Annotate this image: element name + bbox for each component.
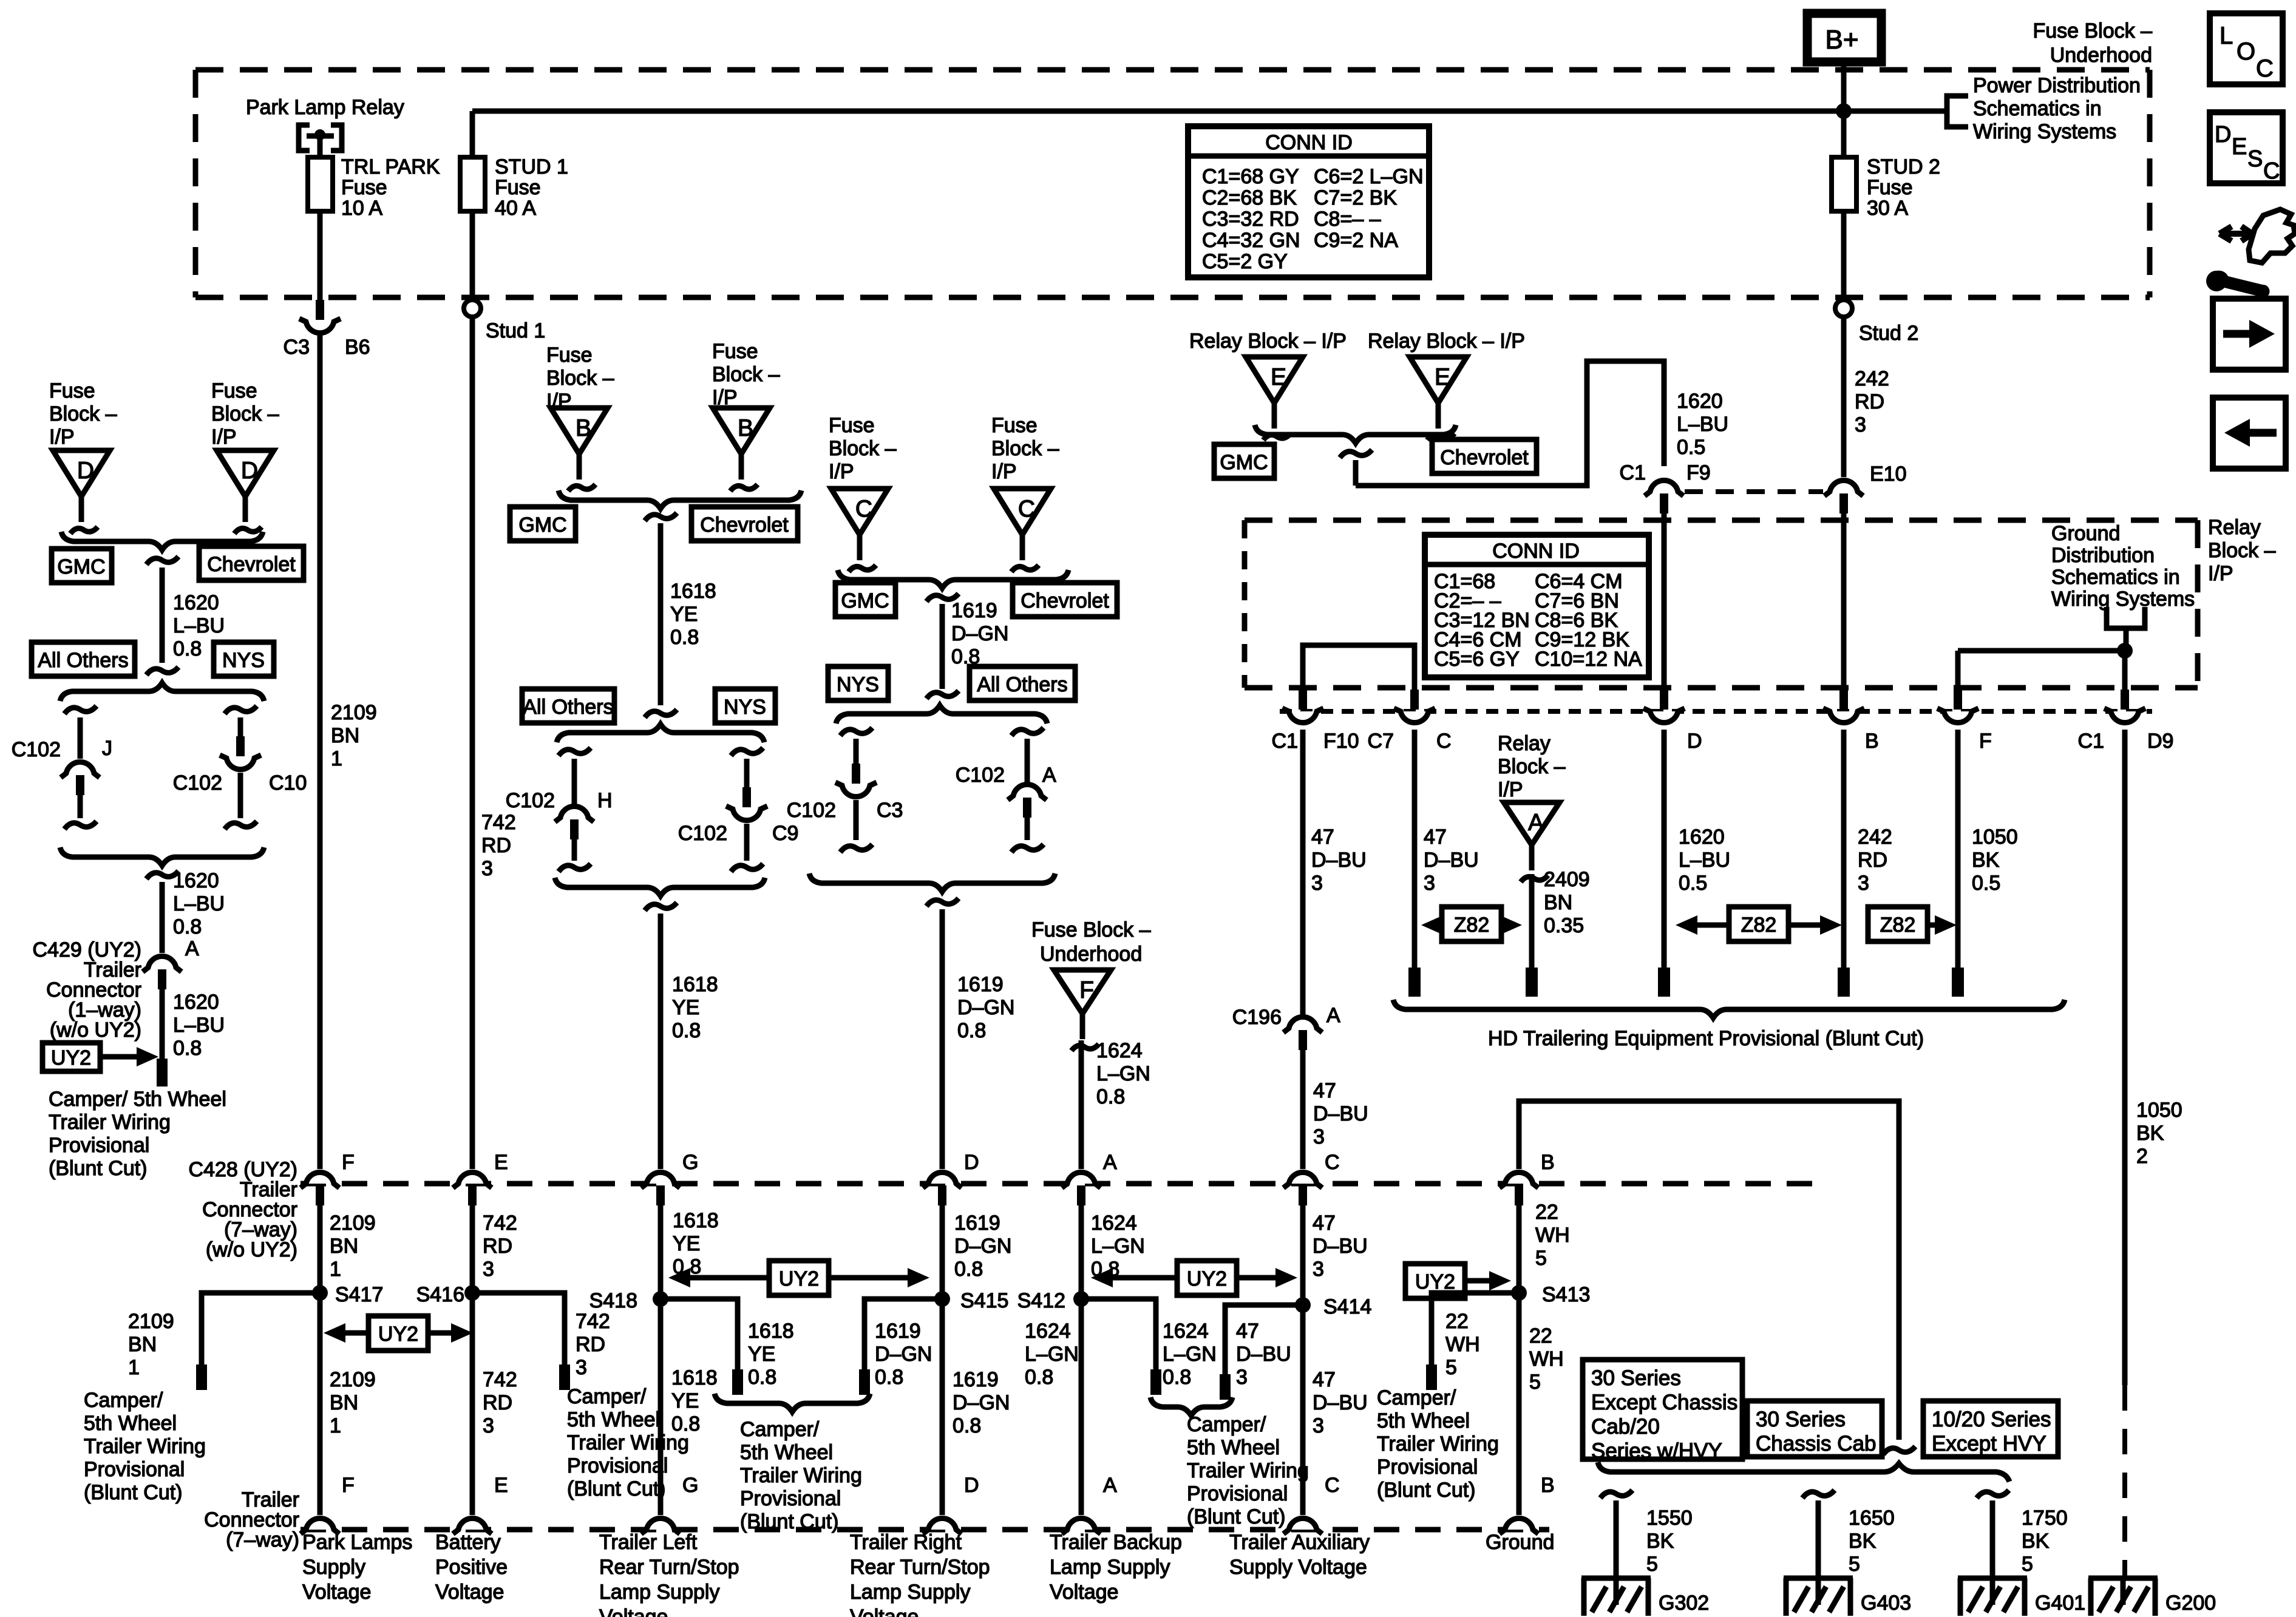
svg-text:0.8: 0.8 [173,637,202,660]
connector C3 B6 park lamp feed [306,322,334,333]
svg-text:1624: 1624 [1096,1039,1143,1062]
svg-text:1620: 1620 [173,591,219,614]
connector D fuse block IP GMC side [53,450,110,497]
svg-text:2: 2 [2136,1145,2148,1168]
svg-text:C: C [2256,55,2274,82]
svg-text:A: A [1103,1474,1117,1497]
svg-text:Chevrolet: Chevrolet [1440,446,1529,469]
junction S412 [1073,1291,1089,1307]
wire 1620 to C429 [160,882,165,953]
wire E selection route to C1 F9 [1353,460,1359,486]
svg-text:D9: D9 [2147,730,2173,753]
svg-text:10/20 Series: 10/20 Series [1932,1408,2051,1431]
junction S416 [464,1285,480,1301]
connector trailer 7-way cavity A [1067,1518,1095,1530]
svg-text:Fuse: Fuse [341,176,387,199]
svg-text:S415: S415 [960,1289,1008,1312]
svg-text:22: 22 [1445,1310,1469,1333]
svg-text:Provisional: Provisional [49,1134,149,1157]
fuse STUD 1 40A [460,157,485,211]
svg-text:NYS: NYS [837,673,879,696]
svg-text:Fuse: Fuse [712,340,758,363]
B+ power feed box [1807,13,1881,62]
hook below gather [146,871,178,879]
svg-text:3: 3 [1313,1125,1325,1148]
svg-text:S414: S414 [1323,1295,1371,1318]
svg-text:Block –: Block – [211,402,279,425]
connector C428 cavity C [1289,1172,1317,1184]
svg-text:0.8: 0.8 [672,1019,701,1042]
svg-text:C1=68 GY: C1=68 GY [1202,165,1299,188]
option box Chevrolet [199,546,304,580]
svg-text:UY2: UY2 [378,1323,418,1346]
svg-text:C6=2 L–GN: C6=2 L–GN [1314,165,1424,188]
hook above D-section spreading brace [146,667,178,675]
svg-text:B6: B6 [345,336,370,359]
svg-text:0.8: 0.8 [1163,1366,1191,1389]
wire G left option upper [572,759,577,804]
svg-text:Fuse Block –: Fuse Block – [1031,918,1151,941]
svg-text:C5=6 GY: C5=6 GY [1434,648,1520,671]
svg-text:242: 242 [1855,367,1889,390]
brace gathering G options [555,878,765,896]
hook above G spreading brace [645,710,677,717]
svg-text:C7=2 BK: C7=2 BK [1314,186,1397,209]
wire C7 to blunt cut [1412,730,1418,969]
svg-text:Trailer Wiring: Trailer Wiring [567,1431,689,1454]
svg-text:Z82: Z82 [1454,914,1490,937]
Z82 option double arrow C7 [1442,907,1501,941]
hook D left bottom [840,844,872,852]
svg-text:1620: 1620 [173,991,219,1014]
connector C196 A [1289,1017,1317,1028]
hook ground G302 [1600,1490,1632,1498]
svg-text:UY2: UY2 [51,1046,91,1070]
connector D fuse block IP Chevrolet side [217,450,274,497]
ground G401 [1958,1576,2027,1581]
svg-text:C102: C102 [678,822,727,845]
svg-text:3: 3 [483,1414,494,1437]
svg-text:3: 3 [576,1356,587,1379]
wire stud2 to E10 [1841,317,1847,477]
svg-text:0.5: 0.5 [1677,436,1705,459]
svg-text:D–BU: D–BU [1311,849,1367,872]
hook ground G401 [1977,1490,2009,1498]
svg-text:Fuse: Fuse [829,414,875,437]
UY2 option arrows G D [769,1261,829,1295]
svg-text:10 A: 10 A [341,197,382,220]
svg-text:Battery: Battery [435,1531,501,1554]
svg-text:BK: BK [1849,1530,1877,1553]
wire D right option lower [1025,818,1030,840]
spreading brace G options [557,724,764,742]
svg-text:UY2: UY2 [779,1267,819,1290]
svg-text:B+: B+ [1825,25,1858,55]
svg-text:3: 3 [1313,1258,1324,1281]
svg-text:Voltage: Voltage [599,1605,668,1617]
svg-text:0.8: 0.8 [173,1037,202,1060]
svg-text:C1: C1 [2078,730,2104,753]
svg-text:C2=68 BK: C2=68 BK [1202,186,1297,209]
svg-text:Park Lamp Relay: Park Lamp Relay [246,96,404,119]
svg-text:Cab/20: Cab/20 [1591,1415,1660,1439]
svg-text:C10: C10 [269,771,307,795]
svg-text:D–BU: D–BU [1236,1343,1291,1366]
svg-text:47: 47 [1311,825,1334,849]
svg-text:RD: RD [483,1235,512,1258]
connector C1 F10 [1289,711,1317,723]
svg-text:Trailer Right: Trailer Right [850,1531,962,1554]
connector E10 [1830,480,1858,492]
LOC icon box [2210,13,2283,84]
hook below C brace [926,594,959,602]
svg-text:1618: 1618 [673,1209,719,1232]
svg-text:Trailer Wiring: Trailer Wiring [1187,1459,1309,1482]
svg-text:Relay: Relay [1498,732,1550,755]
option box NYS [214,642,274,676]
brace joining C connectors [838,570,1068,588]
svg-text:TRL PARK: TRL PARK [341,155,440,178]
svg-text:L–BU: L–BU [1679,849,1730,872]
ground distribution bracket [2107,607,2145,628]
svg-text:Except Chassis: Except Chassis [1591,1391,1737,1414]
svg-text:D: D [964,1151,979,1174]
wire F column fuse block to trailer connector [318,335,323,1169]
svg-text:30 Series: 30 Series [1591,1366,1681,1390]
svg-text:Voltage: Voltage [302,1581,371,1604]
svg-text:Z82: Z82 [1741,914,1777,937]
svg-text:G401: G401 [2035,1592,2085,1615]
svg-text:RD: RD [483,1391,512,1414]
svg-text:Lamp Supply: Lamp Supply [1050,1556,1170,1579]
svg-text:Underhood: Underhood [2050,44,2152,67]
svg-text:G: G [682,1151,698,1174]
wire A martini to blunt cut [1529,874,1535,969]
connector B fuse block IP GMC side [551,408,608,454]
wire G right option upper [744,759,750,787]
svg-text:I/P: I/P [829,460,854,483]
svg-text:(Blunt Cut): (Blunt Cut) [1377,1479,1476,1502]
svg-text:(w/o UY2): (w/o UY2) [206,1238,297,1261]
svg-text:All Others: All Others [977,673,1067,696]
wire left option lower [78,795,83,818]
svg-text:G: G [682,1474,698,1497]
relay block internal loop F10 C7 [1303,645,1415,692]
branch S416 to camper blunt cut [472,1293,565,1366]
hook below D gather [926,898,959,906]
svg-text:WH: WH [1445,1333,1480,1356]
connector C102 H [560,806,588,818]
hook D right bottom [1011,844,1044,852]
svg-text:2109: 2109 [128,1310,174,1333]
svg-text:A: A [185,937,199,960]
wire E10 into relay block to B terminal [1841,514,1847,692]
svg-text:1620: 1620 [173,869,219,892]
hook below E brace [1340,450,1372,458]
connector C428 cavity F [306,1172,334,1184]
svg-text:Lamp Supply: Lamp Supply [599,1581,719,1604]
svg-text:Fuse: Fuse [49,379,95,402]
svg-text:0.8: 0.8 [748,1366,776,1389]
branch S414 to camper blunt cut [1225,1305,1303,1375]
svg-text:D–GN: D–GN [951,622,1008,645]
svg-text:Fuse: Fuse [1867,176,1913,199]
wire stud1 fuse riser [470,111,475,157]
connector B relay [1830,711,1858,723]
svg-text:S412: S412 [1017,1289,1065,1312]
option box All Others D column [970,666,1075,700]
connector trailer 7-way cavity B [1505,1518,1533,1530]
svg-text:(Blunt Cut): (Blunt Cut) [567,1477,666,1500]
svg-text:Chassis Cab: Chassis Cab [1756,1432,1876,1456]
connector trailer 7-way cavity E [458,1518,486,1530]
svg-text:1624: 1624 [1091,1212,1137,1235]
svg-text:I/P: I/P [991,460,1017,483]
hook right option [225,706,257,714]
blunt cut pins HD trailering [1408,968,1421,997]
svg-text:Trailer Wiring: Trailer Wiring [84,1435,206,1458]
svg-text:0.8: 0.8 [671,1412,700,1436]
svg-text:D–BU: D–BU [1313,1102,1368,1125]
hook left option bottom [64,821,97,829]
svg-text:YE: YE [670,603,698,626]
svg-text:Stud 2: Stud 2 [1859,322,1918,345]
svg-text:Fuse: Fuse [495,176,541,199]
spreading brace D options [836,705,1047,724]
svg-text:A: A [1528,810,1544,836]
connector trailer 7-way cavity G [647,1518,674,1530]
svg-text:G200: G200 [2165,1592,2216,1615]
svg-text:Positive: Positive [435,1556,508,1579]
svg-text:RD: RD [1855,390,1884,413]
svg-text:1650: 1650 [1849,1507,1895,1530]
svg-text:Camper/ 5th Wheel: Camper/ 5th Wheel [49,1088,226,1111]
svg-text:S413: S413 [1542,1283,1590,1306]
connector C7 C [1401,711,1428,723]
option box All Others G [522,689,614,723]
svg-text:B: B [1541,1151,1555,1174]
Z82 option double arrow D [1729,907,1788,941]
svg-text:WH: WH [1535,1224,1570,1247]
wire D relay to blunt cut [1662,730,1667,969]
svg-text:GMC: GMC [841,589,889,612]
svg-text:Series w/HVY: Series w/HVY [1591,1439,1722,1463]
svg-text:CONN ID: CONN ID [1265,131,1353,154]
connector C428 cavity D [928,1172,956,1184]
svg-text:D–GN: D–GN [875,1343,932,1366]
wire B+ down to bus [1841,62,1847,157]
fuse TRL PARK 10A [308,157,333,211]
brace gathering D options [809,873,1055,892]
ground distribution junction dot [2117,643,2133,659]
svg-text:Power Distribution: Power Distribution [1973,74,2141,97]
svg-text:Camper/: Camper/ [740,1418,820,1441]
hook ground G403 [1802,1490,1835,1498]
connector C1 F9 [1650,480,1678,492]
trailer connector C428 dashed line [301,1181,1827,1187]
horizontal bus wire stud1 to power distribution reference [472,109,1947,114]
svg-text:Ground: Ground [1486,1531,1554,1554]
svg-text:Wiring Systems: Wiring Systems [2051,588,2195,611]
junction S415 [934,1291,950,1307]
UY2 option arrows F E [369,1316,428,1351]
svg-text:1619: 1619 [951,599,997,622]
svg-text:1619: 1619 [957,973,1004,996]
svg-text:Block –: Block – [49,402,117,425]
UY2 option arrows A C [1177,1261,1237,1295]
svg-text:YE: YE [672,996,699,1019]
connector B fuse block IP Chevrolet side [713,408,770,454]
connector C102 C10 [226,758,254,770]
ground G302 [1581,1576,1651,1581]
blunt cut pin camper wiring [157,1059,168,1086]
svg-text:YE: YE [673,1232,700,1255]
svg-text:STUD 2: STUD 2 [1867,155,1940,178]
hook below B brace [645,513,677,521]
svg-text:I/P: I/P [211,425,237,449]
wires C428 row to junction row [318,1205,323,1515]
connector C428 cavity A [1067,1172,1095,1184]
svg-text:Block –: Block – [546,367,614,390]
svg-text:1620: 1620 [1679,825,1725,849]
svg-text:(Blunt Cut): (Blunt Cut) [84,1481,183,1504]
svg-text:C9: C9 [772,822,798,845]
svg-text:RD: RD [576,1333,605,1356]
svg-text:GMC: GMC [57,555,105,578]
svg-text:All Others: All Others [38,649,128,672]
svg-text:L–GN: L–GN [1163,1343,1217,1366]
junction dot B+ bus [1836,103,1852,119]
svg-text:3: 3 [1311,872,1323,895]
connector C428 cavity B [1505,1172,1533,1184]
svg-text:F: F [1079,977,1094,1003]
connector C428 cavity G [647,1172,674,1184]
svg-text:UY2: UY2 [1415,1270,1455,1293]
svg-text:Lamp Supply: Lamp Supply [850,1581,970,1604]
svg-text:1618: 1618 [670,580,716,603]
svg-text:0.8: 0.8 [875,1366,903,1389]
svg-text:Fuse: Fuse [211,379,257,402]
svg-text:2109: 2109 [330,1212,376,1235]
svg-text:0.35: 0.35 [1544,914,1584,937]
svg-text:Provisional: Provisional [1187,1482,1288,1505]
svg-text:GMC: GMC [518,514,566,537]
svg-text:(Blunt Cut): (Blunt Cut) [1187,1505,1286,1528]
svg-text:Provisional: Provisional [1377,1456,1478,1479]
junction S413 [1511,1285,1527,1301]
spreading brace to C102 options [60,683,264,701]
svg-text:BK: BK [2136,1122,2164,1145]
svg-text:A: A [1042,764,1056,787]
svg-text:All Others: All Others [523,696,613,719]
wire 1618 upper [658,523,664,705]
brace joining B connectors [559,490,801,509]
wire TRL PARK fuse down [318,211,323,300]
svg-text:5: 5 [1646,1553,1658,1576]
option box GMC D column [835,583,895,617]
svg-text:D–BU: D–BU [1313,1235,1368,1258]
connector C428 cavity E [458,1172,486,1184]
svg-text:I/P: I/P [2208,562,2233,585]
svg-text:BK: BK [1972,849,2000,872]
svg-text:E: E [1271,364,1286,390]
CONN ID table relay block [1425,535,1649,677]
svg-text:3: 3 [1855,413,1866,436]
svg-text:NYS: NYS [724,696,766,719]
wire below C429 [160,989,165,1062]
svg-text:YE: YE [748,1343,775,1366]
wire junction down to D9 [2122,651,2128,692]
wire D right option upper [1025,739,1030,782]
svg-text:Stud 1: Stud 1 [486,319,545,342]
option box GMC relay [1214,444,1274,478]
connector C429 A [148,956,176,968]
svg-text:F10: F10 [1323,730,1359,753]
svg-text:22: 22 [1535,1201,1558,1224]
connector A relay block IP [1504,802,1560,845]
svg-text:Supply: Supply [302,1556,365,1579]
svg-text:1: 1 [128,1356,140,1379]
svg-text:742: 742 [481,811,516,834]
svg-text:Wiring Systems: Wiring Systems [1973,120,2116,143]
svg-text:E: E [1435,364,1450,390]
svg-text:G302: G302 [1659,1592,1709,1615]
connector F fuse block underhood [1054,970,1111,1014]
svg-text:1: 1 [331,747,342,770]
branch S417 to camper blunt cut [202,1293,320,1366]
wire A column to trailer connector [1079,1040,1084,1169]
svg-text:Chevrolet: Chevrolet [700,514,789,537]
svg-text:1: 1 [330,1258,341,1281]
svg-text:B: B [1865,730,1879,753]
svg-text:BN: BN [128,1333,157,1356]
svg-text:Fuse Block –: Fuse Block – [2033,19,2152,42]
svg-text:F: F [342,1474,355,1497]
svg-text:D–BU: D–BU [1424,849,1479,872]
option box Chevrolet G column [691,507,798,541]
wire 1619 upper [940,604,945,689]
svg-text:C7: C7 [1368,730,1394,753]
svg-text:Relay: Relay [2208,516,2261,539]
svg-text:J: J [102,737,112,760]
svg-text:Voltage: Voltage [1050,1581,1118,1604]
svg-text:1619: 1619 [875,1320,921,1343]
svg-text:3: 3 [1313,1414,1324,1437]
wire G to trailer connector [658,914,664,1169]
shortcut hand and wrench icon [2249,209,2295,263]
svg-text:1618: 1618 [748,1320,794,1343]
brace joining D connectors [61,532,263,550]
svg-text:C: C [855,496,872,522]
power distribution reference bracket [1947,96,1968,127]
connector C fuse block IP GMC side [831,489,888,535]
svg-text:47: 47 [1424,825,1447,849]
svg-text:Trailer Backup: Trailer Backup [1050,1531,1182,1554]
svg-text:30 A: 30 A [1867,197,1908,220]
connector D relay [1650,711,1678,723]
svg-text:Block –: Block – [2208,539,2276,562]
svg-text:Z82: Z82 [1880,914,1916,937]
brace camper A C pair [1150,1397,1232,1415]
connector C102 C3 [842,785,870,797]
option box NYS D column [828,666,888,700]
svg-text:C196: C196 [1232,1006,1282,1029]
wire 1750 BK 5 [1990,1500,1995,1578]
svg-text:YE: YE [671,1389,699,1412]
hook below G gather [645,903,677,910]
svg-text:D–GN: D–GN [953,1391,1010,1414]
junction S414 [1295,1297,1311,1313]
